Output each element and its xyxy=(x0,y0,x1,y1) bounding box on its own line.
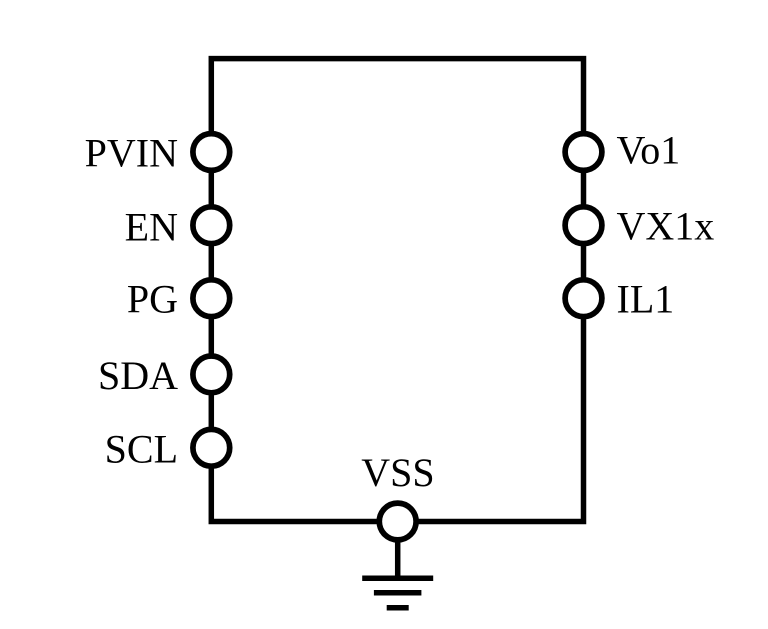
svg-text:SDA: SDA xyxy=(98,353,178,398)
svg-text:VSS: VSS xyxy=(361,450,434,495)
svg-text:Vo1: Vo1 xyxy=(617,127,681,172)
svg-text:PVIN: PVIN xyxy=(85,131,178,176)
svg-text:IL1: IL1 xyxy=(617,277,675,322)
svg-text:VX1x: VX1x xyxy=(617,204,715,249)
svg-text:EN: EN xyxy=(125,205,178,250)
svg-text:PG: PG xyxy=(127,277,178,322)
svg-text:SCL: SCL xyxy=(105,426,178,471)
